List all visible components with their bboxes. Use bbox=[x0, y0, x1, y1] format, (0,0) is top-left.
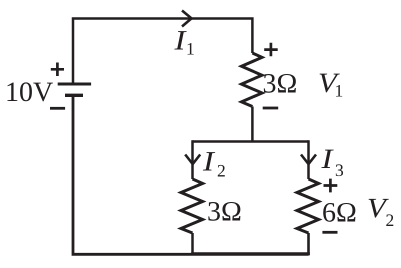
label I2 current bbox=[203, 152, 215, 170]
label 10V source value bbox=[7, 82, 52, 101]
wire: R2 bottom to bottom rail bbox=[191, 233, 194, 255]
wire: middle rail (node B) bbox=[193, 140, 309, 143]
arrow I3 on right branch bbox=[301, 155, 316, 165]
resistor R3 6ohm zigzag bbox=[297, 179, 319, 233]
label 3ohm R1 value bbox=[264, 74, 296, 93]
wire: R3 bottom stub bbox=[307, 233, 310, 255]
arrow I2 on left branch bbox=[185, 155, 200, 165]
R3 plus polarity mark (V2) bbox=[324, 179, 338, 193]
arrow I1 on top rail bbox=[182, 11, 192, 27]
wire: parallel-box bottom rail (R2 to R3) bbox=[191, 252, 310, 255]
label V1 subscript 1 bbox=[336, 85, 342, 97]
wire: left branch from middle rail to R2 top bbox=[191, 140, 194, 179]
label 6ohm R3 value bbox=[323, 203, 355, 222]
label I1 current bbox=[174, 31, 186, 49]
battery minus polarity mark bbox=[50, 107, 65, 110]
battery source 10V short plate (-) bbox=[65, 94, 83, 97]
wire: R1 bottom stub to middle rail bbox=[251, 107, 254, 142]
battery plus polarity mark bbox=[51, 63, 64, 77]
label I3 current bbox=[321, 150, 333, 168]
label I1 subscript 1 bbox=[188, 43, 194, 55]
label V1 voltage bbox=[320, 74, 340, 93]
label 3ohm R2 value bbox=[208, 202, 240, 221]
label V2 subscript 2 bbox=[386, 214, 393, 226]
label V2 voltage bbox=[369, 199, 389, 218]
R1 minus polarity mark (V1) bbox=[263, 107, 279, 110]
label I2 subscript 2 bbox=[218, 165, 225, 177]
resistor R2 3ohm zigzag bbox=[181, 179, 203, 233]
R1 plus polarity mark (V1) bbox=[264, 43, 278, 57]
R3 minus polarity mark (V2) bbox=[322, 231, 337, 234]
wire: battery top up and across to R1 (node A top rail) bbox=[73, 19, 252, 85]
wire: right branch from middle rail to R3 top bbox=[307, 140, 310, 179]
label I3 subscript 3 bbox=[336, 164, 343, 176]
battery source 10V long plate (+) bbox=[58, 83, 91, 86]
wire: battery bottom down and bottom rail bbox=[73, 95, 309, 254]
resistor R1 3ohm zigzag bbox=[242, 53, 263, 107]
